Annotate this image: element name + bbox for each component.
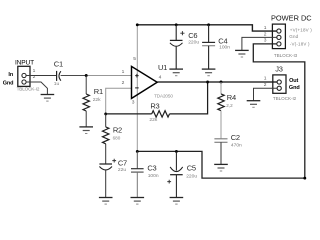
wire U1 output to J3 (157, 81, 277, 83)
resistor R4 2,2 (218, 82, 236, 139)
wire +V top rail (137, 25, 276, 31)
wire C4 to ground (208, 46, 210, 69)
wire INPUT pin1 to C1 (26, 75, 56, 77)
junction feedback/output (206, 81, 209, 84)
wire C3 to ground (136, 172, 138, 197)
svg-text:Gnd: Gnd (289, 34, 298, 39)
resistor R2 680 (102, 114, 122, 164)
svg-text:22u: 22u (118, 167, 126, 173)
ground (C4) (202, 69, 216, 76)
capacitor C1 (54, 60, 63, 88)
svg-text:TBLOCK-I2: TBLOCK-I2 (17, 86, 40, 91)
svg-text:220u: 220u (188, 40, 199, 46)
junction top rail corner (136, 23, 139, 26)
ground (R1) (79, 127, 93, 134)
svg-text:220u: 220u (186, 174, 197, 180)
connector INPUT TBLOCK-I2 (15, 59, 40, 91)
op-amp U1 TDA2050 (132, 63, 174, 99)
svg-text:C3: C3 (147, 163, 156, 172)
svg-text:3: 3 (132, 99, 135, 105)
svg-text:C6: C6 (188, 31, 197, 40)
ground (C3) (131, 198, 145, 205)
capacitor C7 22u (electrolytic) (99, 159, 127, 173)
svg-text:C4: C4 (218, 37, 227, 46)
wire C1 to node A (61, 75, 87, 77)
wire INPUT pin2 to ground (26, 82, 47, 94)
svg-text:TDA2050: TDA2050 (154, 94, 173, 99)
svg-text:2: 2 (264, 82, 267, 88)
capacitor C2 470n (214, 133, 242, 148)
svg-text:C7: C7 (118, 159, 127, 168)
svg-text:1: 1 (264, 76, 267, 82)
svg-text:100n: 100n (219, 45, 230, 51)
ground (C2) (214, 164, 228, 171)
wire U1 power line pin5/pin3 (136, 25, 138, 152)
junction -V corner (303, 177, 306, 180)
svg-text:100n: 100n (148, 173, 159, 179)
ground (C6) (169, 69, 183, 76)
junction R4/output (220, 81, 223, 84)
svg-text:In: In (8, 72, 14, 78)
svg-text:Out: Out (289, 78, 298, 84)
svg-text:Gnd: Gnd (289, 85, 300, 91)
ground (POWER Gnd) (235, 50, 249, 57)
svg-text:22k: 22k (149, 117, 157, 123)
svg-text:2: 2 (122, 80, 125, 86)
svg-text:4: 4 (159, 75, 162, 81)
svg-text:INPUT: INPUT (15, 59, 34, 66)
svg-text:Gnd: Gnd (3, 81, 14, 87)
svg-text:-V(-18V ): -V(-18V ) (290, 41, 310, 46)
svg-text:R3: R3 (150, 101, 159, 110)
node A junction (85, 74, 88, 77)
capacitor C5 220u (electrolytic) (167, 151, 197, 183)
junction C5/-V (175, 150, 178, 153)
junction C3/-V (136, 150, 139, 153)
ground (C7) (99, 198, 113, 205)
svg-text:2,2: 2,2 (226, 103, 233, 108)
svg-text:1: 1 (264, 25, 267, 31)
svg-text:3: 3 (264, 38, 267, 44)
svg-text:1: 1 (122, 69, 125, 75)
svg-text:C5: C5 (187, 164, 196, 173)
ground (J3) (247, 101, 261, 108)
resistor R1 22k (83, 76, 103, 127)
svg-text:POWER DC: POWER DC (271, 14, 312, 23)
svg-text:R2: R2 (113, 125, 122, 134)
svg-text:2: 2 (33, 74, 36, 80)
wire node A to U1 pin1 (86, 75, 131, 77)
svg-text:C1: C1 (54, 60, 63, 69)
ground (input) (41, 95, 55, 102)
capacitor C4 100n (202, 25, 230, 51)
svg-text:R4: R4 (227, 93, 236, 102)
node B junction (feedback node) (104, 112, 107, 115)
junction C6/top rail (175, 23, 178, 26)
wire J3 pin2 to ground (254, 88, 278, 100)
svg-text:1: 1 (33, 68, 36, 74)
wire U1 pin2 net (inverting input) (106, 88, 132, 114)
svg-text:470n: 470n (231, 143, 242, 149)
svg-text:1u: 1u (54, 81, 60, 87)
svg-text:5: 5 (133, 56, 136, 62)
svg-text:TBLOCK-I3: TBLOCK-I3 (274, 53, 298, 58)
wire C2 to ground (220, 142, 222, 164)
junction C4/top rail (207, 23, 210, 26)
svg-text:U1: U1 (158, 63, 167, 72)
connector J3 TBLOCK-I2 (273, 64, 297, 101)
svg-text:J3: J3 (275, 64, 283, 73)
wire C5 to ground (175, 175, 177, 198)
svg-text:22k: 22k (93, 97, 101, 103)
wire C7 to ground (105, 170, 107, 197)
svg-text:680: 680 (113, 136, 121, 141)
connector POWER DC TBLOCK-I3 (271, 14, 312, 58)
capacitor C3 100n (131, 151, 159, 179)
capacitor C6 220u (electrolytic) (170, 25, 199, 46)
svg-text:R1: R1 (94, 87, 103, 96)
wire -V rail (pin3 net) (137, 44, 304, 178)
svg-text:TBLOCK-I2: TBLOCK-I2 (273, 96, 297, 101)
ground (C5) (170, 198, 184, 205)
wire C6 to ground (175, 46, 177, 69)
svg-text:2: 2 (264, 31, 267, 37)
svg-text:C2: C2 (231, 133, 240, 142)
wire POWER pin2 to ground (242, 37, 277, 50)
resistor R3 22k (feedback) (106, 82, 208, 123)
svg-text:+V(+18V ): +V(+18V ) (290, 27, 312, 32)
